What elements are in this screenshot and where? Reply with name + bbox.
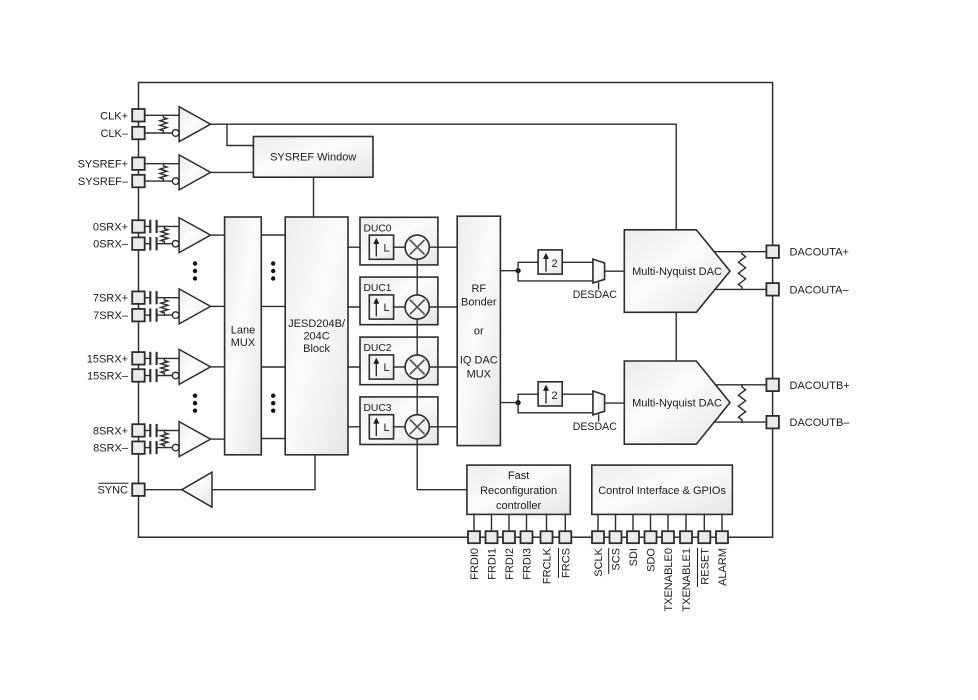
wire 7SRX- to coupling cap — [145, 314, 151, 316]
ellipsis dots mid upper — [271, 261, 275, 265]
svg-text:15SRX–: 15SRX– — [87, 371, 129, 383]
wire JESD to DUC2 — [348, 366, 369, 368]
wire 15SRX+ to coupling cap — [145, 357, 151, 359]
ellipsis dots left upper — [193, 261, 197, 265]
wire SCS stub — [615, 514, 617, 531]
capacitor 8SRX+ coupling — [149, 424, 151, 437]
bubble SYSREF- input — [172, 178, 179, 185]
buffer 8SRX — [179, 422, 211, 457]
wire RESET stub — [703, 514, 705, 531]
svg-text:SCLK: SCLK — [593, 547, 605, 576]
wire SDO stub — [650, 514, 652, 531]
pin 7SRX+ — [132, 291, 145, 304]
wire DAC B to DACOUTB- — [714, 421, 766, 423]
svg-text:DACOUTA+: DACOUTA+ — [790, 247, 849, 259]
wire DAC B to DACOUTB+ — [716, 384, 767, 386]
svg-text:L: L — [384, 302, 390, 314]
wire mixer DUC2 to RF Bonder — [429, 366, 457, 368]
capacitor 8SRX- coupling — [149, 441, 151, 454]
svg-text:RESET: RESET — [699, 548, 711, 585]
interpolator L DUC3 — [369, 415, 393, 439]
svg-text:IQ DAC: IQ DAC — [460, 355, 498, 367]
block RF Bonder / IQ DAC MUX — [457, 216, 500, 445]
capacitor 0SRX- coupling — [149, 237, 151, 250]
wire JESD to SYNC buffer — [212, 455, 315, 490]
wire TXENABLE1 stub — [685, 514, 687, 531]
svg-text:0SRX–: 0SRX– — [93, 239, 129, 251]
pin RESET — [698, 531, 710, 543]
pin SYSREF+ — [132, 157, 145, 170]
svg-text:7SRX–: 7SRX– — [93, 310, 129, 322]
resistor 7SRX termination — [161, 298, 168, 315]
svg-text:204C: 204C — [303, 331, 329, 343]
wire CLK branch to SYSREF Window — [227, 124, 253, 145]
svg-text:FRDI0: FRDI0 — [469, 548, 481, 580]
wire 8SRX buffer to Lane MUX — [211, 438, 225, 440]
svg-text:SYSREF–: SYSREF– — [78, 176, 129, 188]
resistor 15SRX termination — [161, 358, 168, 375]
bubble 7SRX- input — [172, 312, 179, 319]
wire mixer DUC0 to RF Bonder — [429, 246, 457, 248]
svg-text:SYSREF Window: SYSREF Window — [270, 152, 356, 164]
resistor DACOUTA load — [738, 252, 745, 290]
pin TXENABLE0 — [662, 531, 674, 543]
pin CLK- — [132, 127, 145, 140]
svg-text:DESDAC: DESDAC — [573, 421, 617, 433]
pin 15SRX- — [132, 369, 145, 382]
wire Lane MUX to JESD lane 3 — [261, 438, 285, 440]
svg-text:SDI: SDI — [628, 548, 640, 566]
svg-text:MUX: MUX — [467, 368, 492, 380]
pin SYNC — [132, 483, 145, 496]
svg-text:or: or — [474, 326, 484, 338]
svg-text:FRDI1: FRDI1 — [487, 548, 499, 580]
pin DACOUTB+ — [766, 379, 779, 392]
svg-text:DACOUTB–: DACOUTB– — [790, 417, 851, 429]
arrow up interpolator DUC1 — [375, 303, 377, 316]
svg-text:FRCLK: FRCLK — [542, 547, 554, 584]
bubble 8SRX- input — [172, 444, 179, 451]
wire DESDAC A output to DAC — [605, 270, 625, 272]
wire Lane MUX to JESD lane 1 — [261, 305, 285, 307]
svg-text:Fast: Fast — [508, 470, 529, 482]
svg-text:CLK+: CLK+ — [100, 110, 128, 122]
wire FRDI1 stub — [491, 514, 493, 531]
svg-text:2: 2 — [551, 390, 557, 402]
svg-text:Reconfiguration: Reconfiguration — [480, 485, 557, 497]
svg-text:L: L — [384, 242, 390, 254]
svg-text:L: L — [384, 422, 390, 434]
svg-text:Bonder: Bonder — [461, 297, 497, 309]
wire DAC A to DACOUTA+ — [714, 251, 766, 253]
mixer DUC0 — [405, 235, 429, 259]
svg-text:SYSREF+: SYSREF+ — [78, 159, 128, 171]
block SYSREF Window — [253, 137, 373, 178]
wire SYSREF buffer to SYSREF Window — [211, 171, 254, 173]
wire 0SRX+ to coupling cap — [145, 225, 151, 227]
pin FRCLK — [541, 531, 553, 543]
bubble 15SRX- input — [172, 372, 179, 379]
wire interpolator to mixer DUC1 — [394, 306, 406, 308]
svg-text:SCS: SCS — [611, 548, 623, 571]
bubble 0SRX- input — [172, 240, 179, 247]
wire 8SRX- cap to buffer bubble — [157, 447, 172, 449]
wire junction A to x2 interpolator — [518, 262, 538, 270]
block Lane MUX — [225, 217, 262, 455]
buffer 15SRX — [179, 349, 211, 384]
resistor CLK termination — [160, 115, 167, 133]
pin FRCS — [559, 531, 571, 543]
pin 15SRX+ — [132, 352, 145, 365]
svg-text:8SRX+: 8SRX+ — [93, 426, 128, 438]
wire 7SRX- cap to buffer bubble — [157, 314, 172, 316]
ellipsis dots mid lower — [271, 394, 275, 398]
dac Multi-Nyquist DAC B — [624, 361, 730, 444]
block DUC2 container — [360, 337, 438, 385]
wire FRDI3 stub — [526, 514, 528, 531]
wire 0SRX- cap to buffer bubble — [157, 243, 172, 245]
block DUC0 container — [360, 217, 438, 265]
wire 7SRX+ to coupling cap — [145, 297, 151, 299]
arrow up interpolator DUC0 — [375, 243, 377, 256]
wire SYSREF Window to JESD block — [313, 177, 315, 217]
block Control Interface & GPIOs — [592, 465, 733, 514]
arrow up interpolator DUC2 — [375, 363, 377, 376]
svg-text:Multi-Nyquist DAC: Multi-Nyquist DAC — [632, 398, 722, 410]
interpolator x2 B — [538, 382, 562, 406]
wire JESD to DUC3 — [348, 426, 369, 428]
svg-text:FRDI2: FRDI2 — [504, 548, 516, 580]
pin FRDI2 — [503, 531, 515, 543]
wire 8SRX+ to coupling cap — [145, 430, 151, 432]
arrow up x2 A — [545, 258, 547, 271]
svg-text:DACOUTB+: DACOUTB+ — [790, 380, 850, 392]
svg-text:FRCS: FRCS — [560, 548, 572, 578]
wire CLK- to buffer bubble — [145, 132, 172, 134]
dac Multi-Nyquist DAC A — [624, 230, 730, 312]
pin FRDI3 — [521, 531, 533, 543]
mixer DUC2 — [405, 355, 429, 379]
buffer SYSREF U2 — [179, 155, 211, 190]
pin SCLK — [592, 531, 604, 543]
wire 0SRX+ cap to buffer — [157, 225, 180, 227]
wire 0SRX- to coupling cap — [145, 243, 151, 245]
svg-text:2: 2 — [551, 258, 557, 270]
pin ALARM — [716, 531, 728, 543]
resistor SYSREF termination — [160, 164, 167, 181]
wire 15SRX- to coupling cap — [145, 375, 151, 377]
capacitor 7SRX+ coupling — [149, 291, 151, 304]
wire SYNC buffer to pin — [145, 489, 182, 491]
mixer DUC3 — [405, 415, 429, 439]
wire interpolator to mixer DUC0 — [394, 246, 406, 248]
wire Lane MUX to JESD lane 2 — [261, 366, 285, 368]
resistor 0SRX termination — [161, 226, 168, 243]
pin SDI — [627, 531, 639, 543]
wire TXENABLE0 stub — [667, 514, 669, 531]
svg-text:DESDAC: DESDAC — [573, 289, 617, 301]
chip boundary — [139, 83, 773, 538]
pin SCS — [610, 531, 622, 543]
block JESD204B/204C — [285, 217, 348, 455]
interpolator x2 A — [538, 250, 562, 274]
wire interpolator to mixer DUC3 — [394, 426, 406, 428]
wire interpolator to mixer DUC2 — [394, 366, 406, 368]
pin 7SRX- — [132, 309, 145, 322]
interpolator L DUC1 — [369, 295, 393, 319]
svg-text:Lane: Lane — [231, 325, 255, 337]
svg-text:JESD204B/: JESD204B/ — [288, 318, 346, 330]
overline SCS — [608, 548, 610, 574]
pin TXENABLE1 — [680, 531, 692, 543]
wire NCO chain to Fast Reconfiguration — [417, 439, 467, 490]
pin 0SRX+ — [132, 220, 145, 233]
svg-text:0SRX+: 0SRX+ — [93, 221, 128, 233]
buffer CLK U1 — [179, 107, 211, 142]
wire JESD to DUC0 — [348, 246, 369, 248]
pin 0SRX- — [132, 237, 145, 250]
wire Lane MUX to JESD lane 0 — [261, 234, 285, 236]
buffer SYNC (output) — [182, 472, 212, 507]
svg-text:RF: RF — [471, 283, 486, 295]
capacitor 15SRX- coupling — [149, 369, 151, 382]
pin SYSREF- — [132, 175, 145, 188]
wire 15SRX+ cap to buffer — [157, 357, 180, 359]
buffer 7SRX — [179, 289, 211, 324]
svg-text:TXENABLE0: TXENABLE0 — [663, 548, 675, 612]
svg-text:SDO: SDO — [646, 548, 658, 572]
wire DESDAC B label tie — [598, 415, 600, 421]
mixer DUC1 — [405, 295, 429, 319]
wire RF Bonder to junction A — [500, 270, 518, 272]
interpolator L DUC2 — [369, 355, 393, 379]
pin SDO — [645, 531, 657, 543]
wire mixer DUC1 to RF Bonder — [429, 306, 457, 308]
svg-text:ALARM: ALARM — [717, 548, 729, 586]
capacitor 7SRX- coupling — [149, 309, 151, 322]
wire SYSREF+ to buffer — [145, 163, 179, 165]
ellipsis dots left lower — [193, 394, 197, 398]
pin CLK+ — [132, 109, 145, 122]
svg-text:Multi-Nyquist DAC: Multi-Nyquist DAC — [632, 266, 722, 278]
wire DESDAC A label tie — [598, 283, 600, 289]
svg-text:DUC0: DUC0 — [364, 223, 392, 234]
wire SYSREF- to buffer bubble — [145, 180, 172, 182]
pin FRDI0 — [468, 531, 480, 543]
junction node B — [516, 400, 521, 405]
capacitor 15SRX+ coupling — [149, 352, 151, 365]
svg-text:TXENABLE1: TXENABLE1 — [681, 548, 693, 612]
pin 8SRX+ — [132, 424, 145, 437]
wire NCO chain mixer1-mixer2 — [416, 319, 418, 355]
bubble CLK- input — [172, 130, 179, 137]
svg-text:FRDI3: FRDI3 — [522, 548, 534, 580]
svg-text:DUC2: DUC2 — [364, 343, 392, 354]
pin 8SRX- — [132, 441, 145, 454]
wire NCO chain mixer0-mixer1 — [416, 259, 418, 295]
svg-text:DACOUTA–: DACOUTA– — [790, 284, 850, 296]
wire 7SRX buffer to Lane MUX — [211, 305, 225, 307]
svg-text:Control Interface & GPIOs: Control Interface & GPIOs — [598, 485, 726, 497]
wire NCO chain mixer2-mixer3 — [416, 379, 418, 415]
wire SCLK stub — [597, 514, 599, 531]
block Fast Reconfiguration controller — [467, 465, 570, 514]
mux DESDAC B — [593, 391, 605, 415]
wire 8SRX+ cap to buffer — [157, 430, 180, 432]
wire FRDI2 stub — [508, 514, 510, 531]
wire x2 A to DESDAC mux — [562, 261, 593, 263]
wire ALARM stub — [721, 514, 723, 531]
interpolator L DUC0 — [369, 235, 393, 259]
wire SDI stub — [632, 514, 634, 531]
svg-text:DUC1: DUC1 — [364, 283, 392, 294]
wire 7SRX+ cap to buffer — [157, 297, 180, 299]
wire junction A bypass to DESDAC mux — [518, 271, 593, 281]
wire x2 B to DESDAC mux — [562, 393, 593, 395]
pin DACOUTA+ — [766, 245, 779, 258]
resistor 8SRX termination — [161, 431, 168, 448]
pin FRDI1 — [486, 531, 498, 543]
svg-text:15SRX+: 15SRX+ — [87, 353, 128, 365]
wire 0SRX buffer to Lane MUX — [211, 234, 225, 236]
wire CLK+ to buffer — [145, 114, 179, 116]
wire FRDI0 stub — [473, 514, 475, 531]
overline RESET — [697, 548, 699, 587]
wire junction B bypass to DESDAC mux — [518, 403, 593, 413]
mux DESDAC A — [593, 259, 605, 283]
svg-text:MUX: MUX — [231, 337, 256, 349]
capacitor 0SRX+ coupling — [149, 220, 151, 233]
wire DESDAC B output to DAC — [605, 402, 625, 404]
wire RF Bonder to junction B — [500, 402, 518, 404]
overline FRCS — [558, 548, 560, 578]
wire FRCS stub — [564, 514, 566, 531]
wire JESD to DUC1 — [348, 306, 369, 308]
arrow up x2 B — [545, 390, 547, 403]
svg-text:SYNC: SYNC — [97, 485, 128, 497]
svg-text:8SRX–: 8SRX– — [93, 443, 129, 455]
buffer 0SRX — [179, 218, 211, 253]
pin DACOUTB- — [766, 416, 779, 429]
wire junction B to x2 interpolator — [518, 394, 538, 402]
wire FRCLK stub — [546, 514, 548, 531]
wire 15SRX buffer to Lane MUX — [211, 366, 225, 368]
wire CLK buffer output to DACs — [211, 124, 677, 230]
wire mixer DUC3 to RF Bonder — [429, 426, 457, 428]
wire DAC A to DACOUTA- — [715, 288, 766, 290]
junction node A — [516, 268, 521, 273]
wire CLK between DACs — [675, 312, 677, 361]
resistor DACOUTB load — [738, 385, 745, 422]
svg-text:CLK–: CLK– — [100, 128, 128, 140]
overline SYNC — [99, 482, 129, 484]
wire 15SRX- cap to buffer bubble — [157, 375, 172, 377]
block DUC1 container — [360, 277, 438, 325]
svg-text:DUC3: DUC3 — [364, 403, 392, 414]
svg-text:Block: Block — [303, 343, 330, 355]
block DUC3 container — [360, 397, 438, 445]
svg-text:L: L — [384, 362, 390, 374]
pin DACOUTA- — [766, 283, 779, 296]
svg-text:controller: controller — [496, 500, 542, 512]
svg-text:7SRX+: 7SRX+ — [93, 293, 128, 305]
wire 8SRX- to coupling cap — [145, 447, 151, 449]
arrow up interpolator DUC3 — [375, 423, 377, 436]
